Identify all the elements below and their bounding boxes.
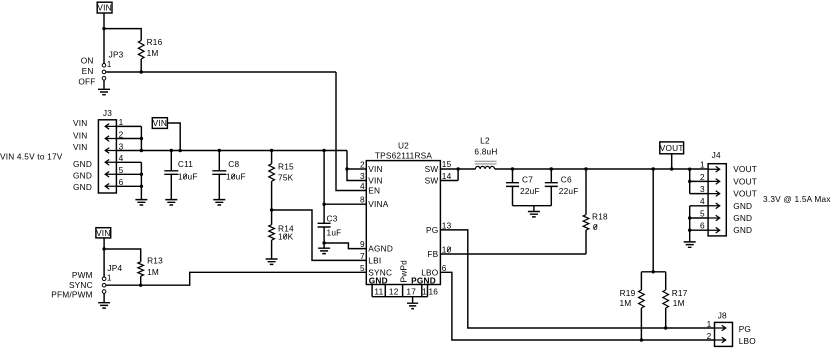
svg-text:OFF: OFF: [78, 77, 95, 87]
wire VIN label to bus: [167, 123, 180, 151]
node C3 branch/bus: [322, 149, 325, 152]
node J4 pin6: [688, 229, 691, 232]
svg-text:PWM: PWM: [72, 270, 93, 280]
capacitor C3: [318, 213, 342, 243]
node R13/SYNC: [139, 284, 142, 287]
pin 1 J3: [105, 117, 141, 129]
node C6/bus: [550, 167, 553, 170]
svg-text:LBO: LBO: [739, 336, 757, 346]
pin 2 J3: [105, 129, 141, 141]
svg-text:22uF: 22uF: [520, 186, 540, 196]
connector J4: [708, 150, 726, 236]
pin 6 J4: [690, 221, 720, 233]
ground under J4: [684, 242, 696, 247]
resistor R19: [619, 272, 644, 340]
svg-text:EN: EN: [368, 186, 380, 196]
resistor R16: [138, 37, 162, 59]
svg-text:6: 6: [119, 177, 124, 187]
svg-text:VIN 4.5V to 17V: VIN 4.5V to 17V: [0, 152, 63, 162]
svg-text:VIN: VIN: [73, 118, 87, 128]
svg-text:10K: 10K: [278, 231, 294, 241]
svg-text:1M: 1M: [147, 48, 159, 58]
node C3 ground/AGND: [322, 241, 325, 244]
svg-text:J8: J8: [718, 310, 727, 320]
svg-text:9: 9: [360, 239, 365, 249]
wire split bar: [641, 271, 665, 273]
svg-text:4: 4: [700, 196, 705, 206]
svg-text:3: 3: [700, 184, 705, 194]
ground under C11: [165, 200, 177, 205]
svg-text:15: 15: [442, 159, 452, 169]
pin 5 J3: [105, 165, 141, 177]
wire J3 pins 4-5-6 tie to ground: [140, 162, 142, 199]
svg-text:VOUT: VOUT: [733, 164, 757, 174]
wire divider to LBI pin7: [272, 210, 367, 260]
node C11/bus: [170, 149, 173, 152]
svg-text:10uF: 10uF: [226, 172, 246, 182]
wire L2 to J4 output bus: [495, 168, 708, 170]
svg-text:1: 1: [107, 59, 112, 69]
pin 15 SW: [425, 159, 452, 174]
wire main VIN bus: [116, 150, 347, 152]
svg-text:1uF: 1uF: [327, 227, 342, 237]
svg-text:4: 4: [119, 153, 124, 163]
svg-text:VOUT: VOUT: [660, 143, 684, 153]
wire J4 pins 1-3 tie: [689, 169, 691, 193]
svg-text:C7: C7: [522, 174, 533, 184]
svg-text:5: 5: [119, 165, 124, 175]
node R15/bus: [270, 149, 273, 152]
wire LBO pin6 to J8 pin2: [440, 272, 714, 340]
svg-text:R19: R19: [620, 288, 636, 298]
svg-text:75K: 75K: [278, 172, 294, 182]
wire SW pins 15-14 tie: [440, 169, 458, 181]
svg-text:5: 5: [360, 263, 365, 273]
wire to R13 top: [104, 249, 141, 262]
pin 5 J4: [690, 208, 720, 220]
svg-text:C6: C6: [561, 174, 572, 184]
svg-text:R15: R15: [278, 162, 294, 172]
node C7/bus: [511, 167, 514, 170]
svg-text:J4: J4: [712, 150, 721, 160]
wire EN line JP3 pin2 to EN vertical: [106, 71, 336, 73]
svg-text:EN: EN: [82, 66, 94, 76]
svg-text:TPS62111RSA: TPS62111RSA: [375, 150, 433, 160]
svg-text:11: 11: [374, 286, 383, 296]
wire bus down to C3/VINA: [323, 151, 325, 224]
node VOUT label/bus: [670, 167, 673, 170]
wire R16 bottom to EN line: [140, 59, 142, 72]
svg-text:JP4: JP4: [107, 263, 122, 273]
svg-text:R17: R17: [672, 288, 688, 298]
pin 4 EN: [360, 181, 380, 196]
svg-text:2: 2: [700, 172, 705, 182]
svg-text:C8: C8: [228, 159, 239, 169]
svg-text:12: 12: [389, 286, 399, 296]
op IC U2 TPS62111RSA: [366, 140, 440, 284]
node J4 pin2: [688, 180, 691, 183]
pin 3 VIN: [360, 171, 383, 186]
slashed zeros (plotter font style): [183, 174, 597, 252]
svg-text:14: 14: [442, 171, 452, 181]
node VIN/R13: [102, 247, 105, 250]
pin 17 pad: [406, 285, 421, 297]
svg-text:8: 8: [360, 195, 365, 205]
svg-text:SW: SW: [425, 176, 439, 186]
capacitor C8: [212, 151, 245, 200]
svg-text:5: 5: [700, 208, 705, 218]
svg-text:1: 1: [107, 273, 112, 283]
node SW tie: [456, 167, 459, 170]
node VINA tap: [322, 203, 325, 206]
node R19/R17 split: [652, 270, 655, 273]
capacitor C6: [545, 169, 579, 206]
jumper JP3: [102, 50, 123, 81]
inductor L2: [474, 136, 497, 169]
net label VIN (bus): [152, 118, 167, 129]
svg-text:C3: C3: [327, 213, 338, 223]
svg-text:10: 10: [442, 245, 452, 255]
resistor R13: [138, 255, 163, 285]
node J4 pin1: [688, 168, 691, 171]
svg-text:LBI: LBI: [368, 255, 381, 265]
node J4 pin5: [688, 216, 691, 219]
svg-text:4: 4: [360, 181, 365, 191]
pin 6 J3: [105, 177, 141, 189]
svg-text:PwPd: PwPd: [399, 260, 409, 283]
net label VIN (JP4): [96, 228, 111, 238]
svg-text:6: 6: [700, 221, 705, 231]
svg-text:PG: PG: [426, 225, 438, 235]
svg-text:VIN: VIN: [368, 176, 382, 186]
svg-text:PGND: PGND: [411, 275, 436, 285]
svg-text:R18: R18: [592, 211, 608, 221]
resistor R14: [269, 210, 294, 259]
svg-text:C11: C11: [178, 159, 193, 169]
ground under C7/C6: [528, 206, 540, 217]
connector J3: [98, 108, 116, 193]
svg-text:VIN: VIN: [97, 3, 111, 13]
svg-text:VOUT: VOUT: [733, 176, 757, 186]
svg-text:2: 2: [360, 160, 365, 170]
pin 10 FB: [427, 245, 451, 260]
resistor R18: [583, 169, 608, 254]
ground under C8: [213, 200, 225, 205]
pin 1 J4: [700, 160, 720, 172]
svg-text:J3: J3: [103, 108, 112, 118]
pin 2 J4: [690, 172, 720, 184]
node R17/PG line: [664, 326, 667, 329]
wire bus down to R19/R17: [652, 169, 654, 272]
node J3 tie/bus: [140, 149, 143, 152]
pin 3 J3: [105, 141, 123, 153]
pin 14 SW: [425, 171, 452, 186]
wire junction to R16 top: [104, 29, 141, 41]
node divider branch/bus: [652, 167, 655, 170]
svg-text:7: 7: [360, 251, 365, 261]
pin 6 LBO: [421, 263, 447, 278]
wire FB pin10 to R18 bottom: [440, 253, 586, 255]
wire pad row bottom: [372, 296, 427, 298]
node J3 pin5 tie: [140, 173, 143, 176]
svg-text:16: 16: [428, 286, 438, 296]
wire VIN box to JP3 pin1: [103, 13, 105, 63]
svg-text:1M: 1M: [147, 267, 159, 277]
svg-text:U2: U2: [398, 140, 409, 150]
wire VOUT label to bus: [671, 154, 673, 169]
svg-text:17: 17: [406, 286, 416, 296]
wire EN vertical down to U2 pin4: [336, 72, 366, 191]
pin 3 J4: [690, 184, 720, 196]
resistor R15: [269, 151, 294, 211]
svg-text:GND: GND: [369, 275, 388, 285]
pin 11 pad: [372, 285, 385, 297]
wire bus corner to U2 pins 2-3: [347, 151, 366, 181]
svg-text:VIN: VIN: [153, 118, 167, 128]
svg-text:PFM/PWM: PFM/PWM: [51, 290, 93, 300]
svg-text:R13: R13: [147, 255, 163, 265]
wire SW to L2: [458, 168, 475, 170]
ground under R14: [266, 259, 278, 264]
node VIN label/bus: [179, 149, 182, 152]
net label VOUT: [660, 142, 684, 154]
svg-text:GND: GND: [733, 201, 752, 211]
svg-text:FB: FB: [427, 249, 438, 259]
svg-text:PG: PG: [739, 324, 751, 334]
pin 1 J8: [707, 319, 726, 331]
svg-text:ON: ON: [81, 56, 94, 66]
svg-text:1: 1: [707, 319, 712, 329]
svg-text:GND: GND: [73, 159, 92, 169]
svg-text:JP3: JP3: [109, 50, 124, 60]
svg-text:GND: GND: [733, 213, 752, 223]
svg-text:1: 1: [700, 160, 705, 170]
svg-text:3: 3: [360, 171, 365, 181]
node C8/bus: [218, 149, 221, 152]
node J3 pin2 tie: [140, 137, 143, 140]
wire AGND to U2 pin9: [324, 243, 366, 249]
svg-text:2: 2: [707, 331, 712, 341]
wire J3 pins 1-2 tie to bus: [140, 126, 142, 150]
node R15/R14/LBI: [270, 208, 273, 211]
capacitor C7: [506, 169, 540, 206]
node junction R16/EN: [140, 70, 143, 73]
svg-text:13: 13: [442, 220, 452, 230]
node R19/LBO line: [640, 338, 643, 341]
svg-text:1: 1: [119, 117, 124, 127]
pin 8 VINA: [360, 195, 389, 210]
svg-text:22uF: 22uF: [559, 186, 579, 196]
svg-text:2: 2: [119, 129, 124, 139]
svg-text:GND: GND: [73, 182, 92, 192]
svg-text:GND: GND: [733, 225, 752, 235]
pin 4 J3: [105, 153, 141, 165]
pin 1 pad: [422, 285, 427, 297]
node J3 pin6 tie: [140, 185, 143, 188]
jumper JP4: [102, 263, 122, 293]
wire SYNC JP4 pin2 to U2 pin5: [106, 272, 366, 285]
node junction VIN/R16: [102, 27, 105, 30]
wire J4 pins 4-6 tie to ground: [689, 206, 691, 242]
pin 12 pad: [389, 285, 403, 297]
svg-text:1M: 1M: [673, 298, 685, 308]
svg-text:1M: 1M: [619, 298, 631, 308]
pin 2 J8: [707, 331, 726, 343]
pin 9 AGND: [360, 239, 393, 254]
svg-text:VOUT: VOUT: [733, 189, 757, 199]
net label VIN (top, feeds JP3): [97, 2, 112, 13]
svg-text:VIN: VIN: [368, 164, 382, 174]
svg-text:10uF: 10uF: [178, 172, 198, 182]
node R18/bus: [584, 167, 587, 170]
wire PG pin13 to J8 pin1: [440, 230, 714, 328]
svg-text:SYNC: SYNC: [69, 280, 93, 290]
ground under C3: [318, 243, 330, 254]
pin 5 SYNC: [360, 263, 392, 278]
capacitor C11: [164, 151, 197, 200]
pin 2 VIN: [360, 160, 383, 175]
svg-text:GND: GND: [73, 171, 92, 181]
node pins 2-3 tie: [345, 167, 348, 170]
pin 13 PG: [426, 220, 452, 235]
svg-text:VIN: VIN: [73, 142, 87, 152]
svg-text:R16: R16: [147, 37, 163, 47]
svg-text:3.3V @ 1.5A Max: 3.3V @ 1.5A Max: [763, 194, 831, 204]
ground under JP3 pin3: [98, 80, 110, 95]
svg-text:L2: L2: [480, 136, 490, 146]
svg-text:SW: SW: [425, 164, 439, 174]
resistor R17: [663, 272, 688, 328]
pin 7 LBI: [360, 251, 381, 266]
svg-text:1: 1: [422, 286, 427, 296]
svg-text:VIN: VIN: [96, 228, 110, 238]
svg-text:AGND: AGND: [368, 244, 393, 254]
wire C7-C6 common: [513, 205, 552, 207]
ground under JP4 pin3: [98, 293, 110, 308]
ground under J3: [135, 200, 147, 205]
pin 4 J4: [690, 196, 720, 208]
svg-text:6: 6: [442, 263, 447, 273]
wire VINA tap to U2 pin8: [324, 203, 366, 205]
svg-text:VIN: VIN: [73, 130, 87, 140]
svg-text:VINA: VINA: [368, 199, 388, 209]
ground under U2: [407, 297, 418, 309]
connector J8: [715, 310, 733, 346]
wire VIN to JP4 pin1: [103, 238, 105, 277]
svg-text:6.8uH: 6.8uH: [474, 147, 497, 157]
